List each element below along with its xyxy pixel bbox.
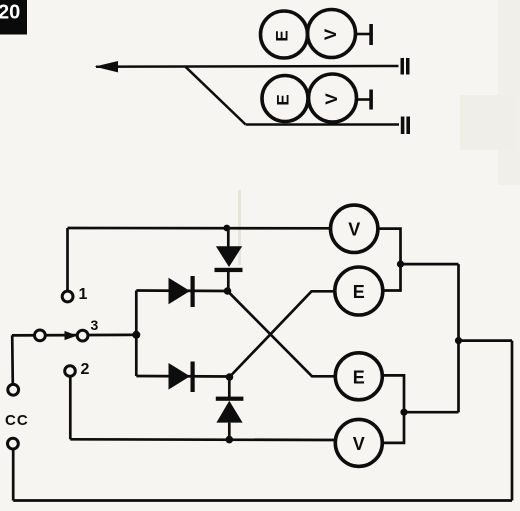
wire CC drop: [11, 335, 14, 384]
svg-text:20: 20: [0, 2, 20, 24]
junction node bridge top-right: [224, 287, 232, 295]
wire bottom rail: [13, 499, 512, 502]
wire bridge left vertical: [135, 291, 138, 377]
svg-text:1: 1: [79, 286, 88, 303]
probe tip T1: [356, 24, 373, 45]
svg-text:V: V: [348, 220, 360, 240]
wire conductor 1: [96, 65, 399, 68]
diode D4 (cathode up): [216, 377, 244, 440]
faint scan streak: [238, 190, 241, 265]
connector J1: [401, 58, 410, 75]
terminal 3 plug arrow: [65, 331, 78, 340]
svg-text:E: E: [272, 30, 291, 41]
meter V1 (rotated V, top pair): [308, 10, 356, 58]
diode D3 (points right, bottom row): [169, 362, 195, 393]
figure tag 20: [0, 0, 27, 35]
wire upper pair to mid bus: [401, 263, 459, 266]
wire terminal 2 drop: [69, 376, 72, 439]
junction node top: [223, 225, 230, 232]
junction node mid bus: [455, 337, 462, 344]
wire CC to bottom rail: [12, 449, 15, 501]
terminal 1: [62, 291, 73, 302]
wire cross diagonal (bottom-left to top-right): [230, 291, 335, 377]
wire mid bus vertical: [457, 264, 460, 412]
wire E4 right lead: [382, 375, 404, 443]
junction node bottom rail: [226, 436, 234, 444]
diode D1 (cathode down): [215, 228, 243, 291]
svg-text:CC: CC: [5, 412, 29, 429]
voltmeter V3 (top): [331, 205, 378, 252]
probe tip T2: [357, 90, 373, 110]
terminal 2: [65, 366, 76, 377]
terminal 3 plug circle b: [77, 330, 88, 341]
wire top rail: [68, 227, 331, 230]
svg-text:E: E: [273, 94, 292, 105]
svg-text:V: V: [353, 434, 365, 454]
junction node right lower: [400, 409, 407, 416]
wire mid bus to right edge: [459, 339, 513, 342]
meter E1 (rotated E, top pair): [261, 11, 308, 58]
meter E2 (rotated E, lower pair): [262, 76, 308, 122]
wire V3 right lead: [378, 229, 401, 291]
svg-text:E: E: [353, 367, 365, 387]
svg-text:V: V: [321, 28, 340, 40]
junction node bridge bottom-right: [226, 373, 234, 381]
terminal 3 plug circle a: [35, 330, 46, 341]
junction node bridge left: [132, 331, 140, 339]
wire bridge bottom row: [136, 375, 229, 378]
wire terminal 3 feed: [12, 333, 136, 336]
wire lower rail: [70, 438, 335, 441]
meter E4: [335, 353, 382, 400]
wire cross diagonal (top-left to bottom-right): [228, 291, 335, 376]
wire diagonal branch: [185, 67, 245, 125]
wire right edge vertical: [511, 341, 514, 501]
faint page-edge shading: [498, 0, 520, 185]
wire terminal 1 riser: [66, 228, 69, 291]
meter V2 (rotated V, lower pair): [309, 74, 357, 122]
wire conductor 2: [246, 123, 399, 126]
svg-text:2: 2: [81, 361, 90, 378]
voltmeter V4 (bottom): [335, 419, 382, 466]
wire bridge top row: [136, 289, 227, 292]
svg-text:3: 3: [91, 317, 99, 333]
svg-text:V: V: [322, 93, 341, 105]
diode D2 (points right, top row): [169, 276, 195, 307]
svg-text:E: E: [353, 282, 365, 302]
arrow head on conductor 1: [95, 61, 119, 72]
wire lower pair to mid bus: [404, 411, 459, 414]
connector J2: [401, 117, 410, 135]
terminal CC upper: [8, 384, 19, 395]
junction node right upper: [397, 261, 404, 268]
terminal CC lower: [7, 438, 18, 449]
meter E3: [335, 267, 383, 315]
